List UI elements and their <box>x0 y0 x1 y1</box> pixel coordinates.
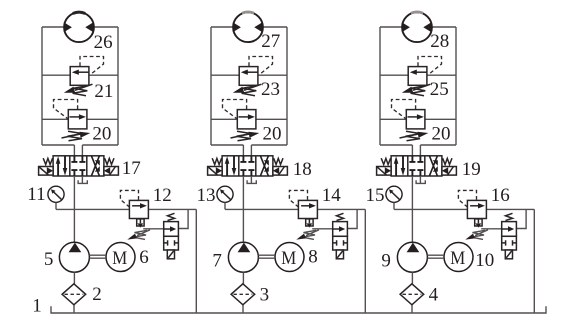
svg-text:6: 6 <box>139 247 149 268</box>
svg-text:19: 19 <box>462 159 481 180</box>
svg-text:1: 1 <box>32 296 42 317</box>
svg-text:3: 3 <box>260 284 270 305</box>
svg-text:11: 11 <box>27 184 45 205</box>
svg-text:13: 13 <box>197 185 216 206</box>
svg-text:25: 25 <box>430 79 449 100</box>
svg-text:2: 2 <box>92 284 102 305</box>
svg-text:5: 5 <box>44 249 54 270</box>
svg-text:28: 28 <box>430 31 449 52</box>
svg-text:20: 20 <box>432 124 451 145</box>
svg-text:27: 27 <box>261 31 280 52</box>
svg-text:9: 9 <box>381 250 391 271</box>
svg-text:20: 20 <box>92 124 111 145</box>
svg-text:12: 12 <box>153 185 172 206</box>
svg-text:14: 14 <box>322 185 342 206</box>
svg-text:18: 18 <box>293 159 312 180</box>
svg-text:15: 15 <box>366 185 385 206</box>
svg-text:7: 7 <box>212 250 222 271</box>
svg-text:21: 21 <box>94 81 113 102</box>
svg-text:4: 4 <box>429 284 439 305</box>
svg-text:8: 8 <box>308 247 318 268</box>
svg-text:26: 26 <box>94 32 113 53</box>
svg-text:20: 20 <box>263 124 282 145</box>
svg-text:16: 16 <box>491 185 510 206</box>
svg-text:23: 23 <box>261 79 280 100</box>
svg-text:17: 17 <box>122 158 141 179</box>
svg-text:10: 10 <box>475 250 494 271</box>
